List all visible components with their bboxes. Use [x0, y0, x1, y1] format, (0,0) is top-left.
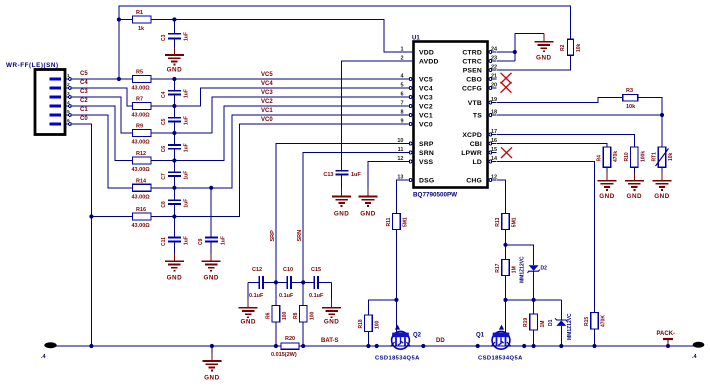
svg-text:C3: C3 [161, 34, 167, 41]
svg-text:VC2: VC2 [419, 104, 433, 111]
svg-text:VC0: VC0 [261, 117, 273, 123]
svg-text:19: 19 [491, 97, 497, 103]
svg-text:AVDD: AVDD [419, 58, 439, 65]
ground (under R4) [598, 173, 617, 190]
svg-text:0.1uF: 0.1uF [309, 293, 324, 299]
resistor R9 [132, 124, 152, 146]
diode D1 zener MM1Z12VC [548, 313, 573, 340]
IC right pin stubs [488, 51, 497, 182]
wire CTRD/CTRC net to GND [497, 34, 544, 62]
svg-text:GND: GND [654, 193, 670, 200]
svg-text:100: 100 [375, 320, 381, 329]
resistor R17 [495, 260, 518, 276]
svg-text:CCFG: CCFG [462, 86, 482, 93]
wire SRN net [303, 153, 405, 347]
svg-text:D1: D1 [548, 319, 554, 326]
junction dots sense caps [274, 280, 306, 284]
no-connect X pin 15 [501, 147, 512, 158]
capacitor C11 (VC0 to GND) [161, 217, 190, 262]
svg-text:21: 21 [491, 74, 497, 80]
svg-text:VC2: VC2 [261, 99, 273, 105]
wire VSS net to ground [368, 162, 405, 197]
svg-text:PACK-: PACK- [657, 331, 676, 337]
resistor R4 [597, 147, 620, 167]
svg-text:GND: GND [599, 193, 615, 200]
capacitor C6 (VC3-VC2) [161, 133, 190, 161]
svg-text:MM1Z12VC: MM1Z12VC [567, 313, 573, 340]
capacitor C3 [161, 20, 190, 56]
svg-text:GND: GND [203, 275, 219, 282]
svg-text:GND: GND [324, 319, 340, 326]
IC left pin names [419, 49, 439, 184]
terminal J5 (right rail end) [692, 342, 704, 360]
svg-text:2: 2 [67, 82, 70, 88]
svg-text:5M1: 5M1 [403, 217, 409, 227]
IC right pin numbers [491, 47, 498, 181]
wire C4 row with jog to R7 and riser back to VC4 [75, 88, 405, 106]
svg-text:VC5: VC5 [419, 77, 433, 84]
transistor Q2 CSD18534Q5A [375, 325, 422, 362]
wire battery negative rail [50, 345, 695, 347]
svg-text:DSG: DSG [419, 178, 434, 185]
svg-text:SRN: SRN [419, 150, 434, 157]
svg-text:1uF: 1uF [184, 89, 190, 98]
IC left pin numbers [397, 47, 404, 181]
resistor R18 [358, 315, 381, 332]
no-connect X pin 20 [501, 82, 512, 93]
svg-text:C5: C5 [161, 118, 167, 125]
svg-text:12: 12 [397, 156, 403, 162]
terminal J4 (left rail end) [41, 342, 57, 360]
svg-text:43.00Ω: 43.00Ω [132, 167, 151, 173]
svg-text:1: 1 [400, 47, 403, 53]
capacitor C13 (AVDD bypass) [323, 171, 361, 197]
svg-text:CHG: CHG [466, 178, 482, 185]
svg-text:VC3: VC3 [419, 95, 433, 102]
svg-text:VC1: VC1 [261, 108, 273, 114]
svg-text:XCPD: XCPD [462, 132, 482, 139]
svg-text:0.015(2W): 0.015(2W) [271, 352, 297, 358]
svg-text:0.1uF: 0.1uF [279, 293, 294, 299]
svg-text:1uF: 1uF [220, 236, 226, 245]
svg-text:R12: R12 [136, 151, 146, 157]
svg-text:C1: C1 [80, 107, 88, 113]
ground (VSS) [359, 189, 378, 206]
svg-text:100: 100 [309, 311, 315, 320]
svg-text:LPWR: LPWR [461, 150, 482, 157]
op-amp U1 IC body BQ7790500PW [414, 42, 488, 188]
svg-text:6: 6 [67, 118, 70, 124]
svg-text:SRP: SRP [419, 141, 434, 148]
svg-text:C9: C9 [198, 238, 204, 245]
svg-text:R3: R3 [626, 88, 633, 94]
connector J1 WR-FF(LE)(SN) [6, 62, 75, 135]
svg-text:BAT-S: BAT-S [321, 338, 339, 344]
svg-text:CTRC: CTRC [462, 58, 482, 65]
svg-text:R17: R17 [495, 263, 501, 272]
svg-text:4: 4 [67, 100, 70, 106]
svg-text:43.00Ω: 43.00Ω [132, 223, 151, 229]
ground (under C15) [322, 300, 341, 317]
svg-text:100: 100 [282, 311, 288, 320]
capacitor C9 (VC1 to GND) [198, 188, 227, 262]
wire LD net [497, 162, 595, 347]
wire CHG net [497, 180, 506, 336]
svg-text:1uF: 1uF [184, 32, 190, 41]
svg-text:RT1: RT1 [652, 152, 658, 162]
svg-text:R16: R16 [136, 207, 146, 213]
wire C0 row with jog to R16, riser to VC0 and drop to battery rail [75, 124, 405, 346]
svg-text:43.00Ω: 43.00Ω [132, 140, 151, 146]
svg-text:CSD18534Q5A: CSD18534Q5A [375, 356, 420, 362]
svg-text:GND: GND [167, 67, 183, 74]
svg-text:23: 23 [491, 56, 497, 62]
svg-text:GND: GND [627, 193, 643, 200]
svg-text:5M1: 5M1 [512, 217, 518, 227]
junction dot TS node [660, 113, 664, 117]
svg-text:R11: R11 [386, 217, 392, 226]
junction dots battery rail [89, 344, 596, 348]
ground (under C3) [165, 47, 184, 64]
wire XCPD net [497, 135, 634, 181]
resistor R19 [523, 300, 546, 346]
capacitor C5 (VC4-VC3) [161, 106, 190, 133]
svg-text:R9: R9 [136, 124, 143, 130]
svg-text:CBI: CBI [470, 141, 482, 148]
thermistor RT1 [652, 147, 675, 181]
wire top supply net (C5 to VDD and PSEN pull-up) [119, 6, 571, 79]
svg-text:MM1Z12VC: MM1Z12VC [520, 256, 526, 283]
svg-text:24: 24 [491, 47, 498, 53]
svg-text:SRP: SRP [270, 230, 276, 242]
resistor R11 (DSG gate) [386, 213, 409, 229]
svg-text:LD: LD [473, 159, 482, 166]
svg-text:C5: C5 [80, 71, 88, 77]
resistor R13 (CHG gate) [495, 214, 518, 230]
svg-text:R8: R8 [293, 312, 299, 319]
svg-text:1M: 1M [540, 321, 546, 328]
capacitor C4 (VC5-VC4) [161, 79, 190, 106]
svg-text:43.00Ω: 43.00Ω [132, 86, 151, 92]
svg-text:C13: C13 [323, 172, 333, 178]
svg-text:GND: GND [204, 375, 220, 382]
resistor R3 (VTB) [623, 88, 638, 110]
svg-text:20: 20 [491, 83, 497, 89]
wire Q2 gate to R18 [368, 300, 396, 346]
svg-text:R19: R19 [523, 318, 529, 327]
svg-text:R10: R10 [624, 152, 630, 161]
svg-text:18: 18 [491, 110, 497, 116]
svg-text:R14: R14 [136, 178, 147, 184]
wire SRP net [276, 144, 405, 347]
svg-text:1k: 1k [138, 26, 145, 32]
svg-text:1: 1 [67, 73, 70, 79]
svg-text:Q2: Q2 [413, 333, 422, 339]
svg-text:R18: R18 [358, 319, 364, 328]
resistor R8 (SRN filter) [293, 306, 316, 323]
svg-text:470K: 470K [601, 315, 607, 327]
svg-text:WR-FF(LE)(SN): WR-FF(LE)(SN) [6, 62, 59, 69]
wire DSG net [396, 180, 405, 336]
svg-text:CTRD: CTRD [462, 49, 482, 56]
svg-text:1uF: 1uF [351, 172, 361, 178]
svg-text:C6: C6 [161, 146, 167, 153]
svg-text:BQ7790500PW: BQ7790500PW [413, 192, 457, 199]
capacitor C7 (VC2-VC1) [161, 161, 190, 188]
resistor R6 (SRP filter) [266, 306, 289, 323]
resistor R12 [132, 151, 152, 173]
svg-text:1uF: 1uF [184, 171, 190, 180]
svg-text:0.1uF: 0.1uF [249, 293, 264, 299]
capacitor C8 (VC1-VC0) [161, 188, 190, 217]
svg-text:R1: R1 [136, 10, 143, 16]
svg-text:VC3: VC3 [261, 90, 273, 96]
capacitor C15 [303, 267, 331, 308]
node PACK- port [657, 331, 676, 348]
svg-text:DD: DD [436, 338, 445, 344]
resistor R15 (470K to PACK-) [584, 312, 607, 329]
junction dots gate networks [394, 243, 535, 302]
resistor R10 [624, 147, 647, 167]
junction dots cell filter chain [89, 77, 213, 219]
svg-text:R6: R6 [266, 312, 272, 319]
svg-text:SRN: SRN [297, 230, 303, 242]
svg-text:12: 12 [491, 175, 497, 181]
svg-text:16: 16 [491, 138, 497, 144]
svg-text:C4: C4 [161, 91, 167, 98]
svg-text:43.00Ω: 43.00Ω [132, 194, 151, 200]
IC right pin names [461, 49, 482, 184]
wire CBI net [497, 144, 607, 181]
svg-text:R4: R4 [597, 155, 603, 162]
svg-text:C8: C8 [161, 201, 167, 208]
svg-text:GND: GND [536, 55, 552, 62]
svg-text:C3: C3 [80, 89, 88, 95]
svg-text:C15: C15 [311, 267, 321, 273]
svg-text:2: 2 [400, 56, 403, 62]
ground (under C9) [202, 253, 221, 270]
resistor R16 [132, 207, 152, 229]
svg-text:17: 17 [491, 129, 497, 135]
svg-text:10k: 10k [576, 43, 582, 52]
svg-text:22: 22 [491, 65, 497, 71]
wire gate node row to D1 [506, 300, 562, 346]
svg-text:3: 3 [67, 91, 70, 97]
svg-text:VC5: VC5 [261, 72, 273, 78]
svg-text:CBO: CBO [466, 77, 482, 84]
svg-text:CSD18534Q5A: CSD18534Q5A [478, 356, 523, 362]
svg-text:1uF: 1uF [184, 143, 190, 152]
capacitor C12 [248, 267, 276, 308]
svg-text:C4: C4 [80, 80, 88, 86]
svg-text:5: 5 [67, 109, 70, 115]
resistor R1 [133, 10, 152, 32]
transistor Q1 CSD18534Q5A [476, 325, 523, 362]
wire C2 row with jog to R12 and riser back to VC2 [75, 106, 405, 161]
svg-text:43.00Ω: 43.00Ω [132, 113, 151, 119]
resistor R20 current sense [271, 336, 299, 358]
svg-text:1uF: 1uF [184, 236, 190, 245]
diode D2 zener MM1Z12VC [520, 256, 548, 283]
svg-text:C7: C7 [161, 173, 167, 180]
resistor R14 [132, 178, 152, 200]
svg-text:VTB: VTB [468, 100, 482, 107]
svg-text:GND: GND [334, 211, 350, 218]
resistor R7 [132, 97, 152, 119]
capacitor C10 [276, 267, 303, 299]
svg-text:GND: GND [167, 275, 183, 282]
svg-text:VSS: VSS [419, 159, 433, 166]
resistor R2 (PSEN pull-up) [560, 39, 582, 55]
ground (rail) [211, 346, 213, 361]
svg-text:VC4: VC4 [261, 81, 273, 87]
svg-text:TS: TS [473, 113, 482, 120]
svg-text:1uF: 1uF [184, 116, 190, 125]
svg-text:470k: 470k [613, 151, 619, 162]
wire C1 row with jog to R14 and riser back to VC1 [75, 115, 405, 188]
junction dots top supply net [117, 17, 517, 81]
svg-text:C11: C11 [161, 237, 167, 246]
wire D2 branch [506, 245, 534, 300]
svg-text:VC4: VC4 [419, 86, 433, 93]
wire PSEN net [497, 55, 571, 70]
svg-text:C2: C2 [80, 98, 88, 104]
svg-text:Q1: Q1 [476, 333, 485, 339]
ground (under RT1) [653, 173, 672, 190]
svg-text:15: 15 [491, 147, 497, 153]
ground (under C11) [165, 253, 184, 270]
wire TS net [497, 115, 662, 147]
svg-text:100k: 100k [641, 151, 647, 162]
wire AVDD net [342, 61, 405, 170]
svg-text:C12: C12 [252, 267, 262, 273]
wire C3 row with jog to R9 and riser back to VC3 [75, 97, 405, 133]
svg-text:GND: GND [240, 319, 256, 326]
svg-text:PSEN: PSEN [463, 67, 482, 74]
svg-text:R5: R5 [136, 70, 143, 76]
wire C5 row [75, 78, 405, 80]
svg-text:1uF: 1uF [184, 199, 190, 208]
IC left pin stubs [405, 52, 414, 181]
svg-text:VDD: VDD [419, 49, 434, 56]
ground (under R10) [625, 173, 644, 190]
svg-text:C0: C0 [80, 116, 88, 122]
resistor R5 [132, 70, 152, 92]
ground (CTRD/CTRC net) [534, 34, 553, 51]
no-connect X pin 21 [501, 73, 512, 84]
svg-text:GND: GND [360, 211, 376, 218]
ground (under C12) [239, 300, 258, 317]
svg-text:VC1: VC1 [419, 113, 433, 120]
svg-text:R2: R2 [560, 44, 566, 51]
svg-text:R13: R13 [495, 217, 501, 226]
svg-text:VC0: VC0 [419, 122, 433, 129]
wire VTB net [497, 98, 662, 115]
svg-text:R7: R7 [136, 97, 143, 103]
svg-text:10k: 10k [626, 104, 636, 110]
svg-text:C10: C10 [283, 267, 293, 273]
svg-text:10k: 10k [668, 152, 674, 161]
svg-text:1M: 1M [512, 266, 518, 273]
ground (under C13) [332, 189, 351, 206]
svg-text:D2: D2 [541, 266, 548, 272]
svg-text:R15: R15 [584, 317, 590, 326]
svg-text:R20: R20 [285, 336, 295, 342]
svg-text:U1: U1 [412, 36, 420, 42]
